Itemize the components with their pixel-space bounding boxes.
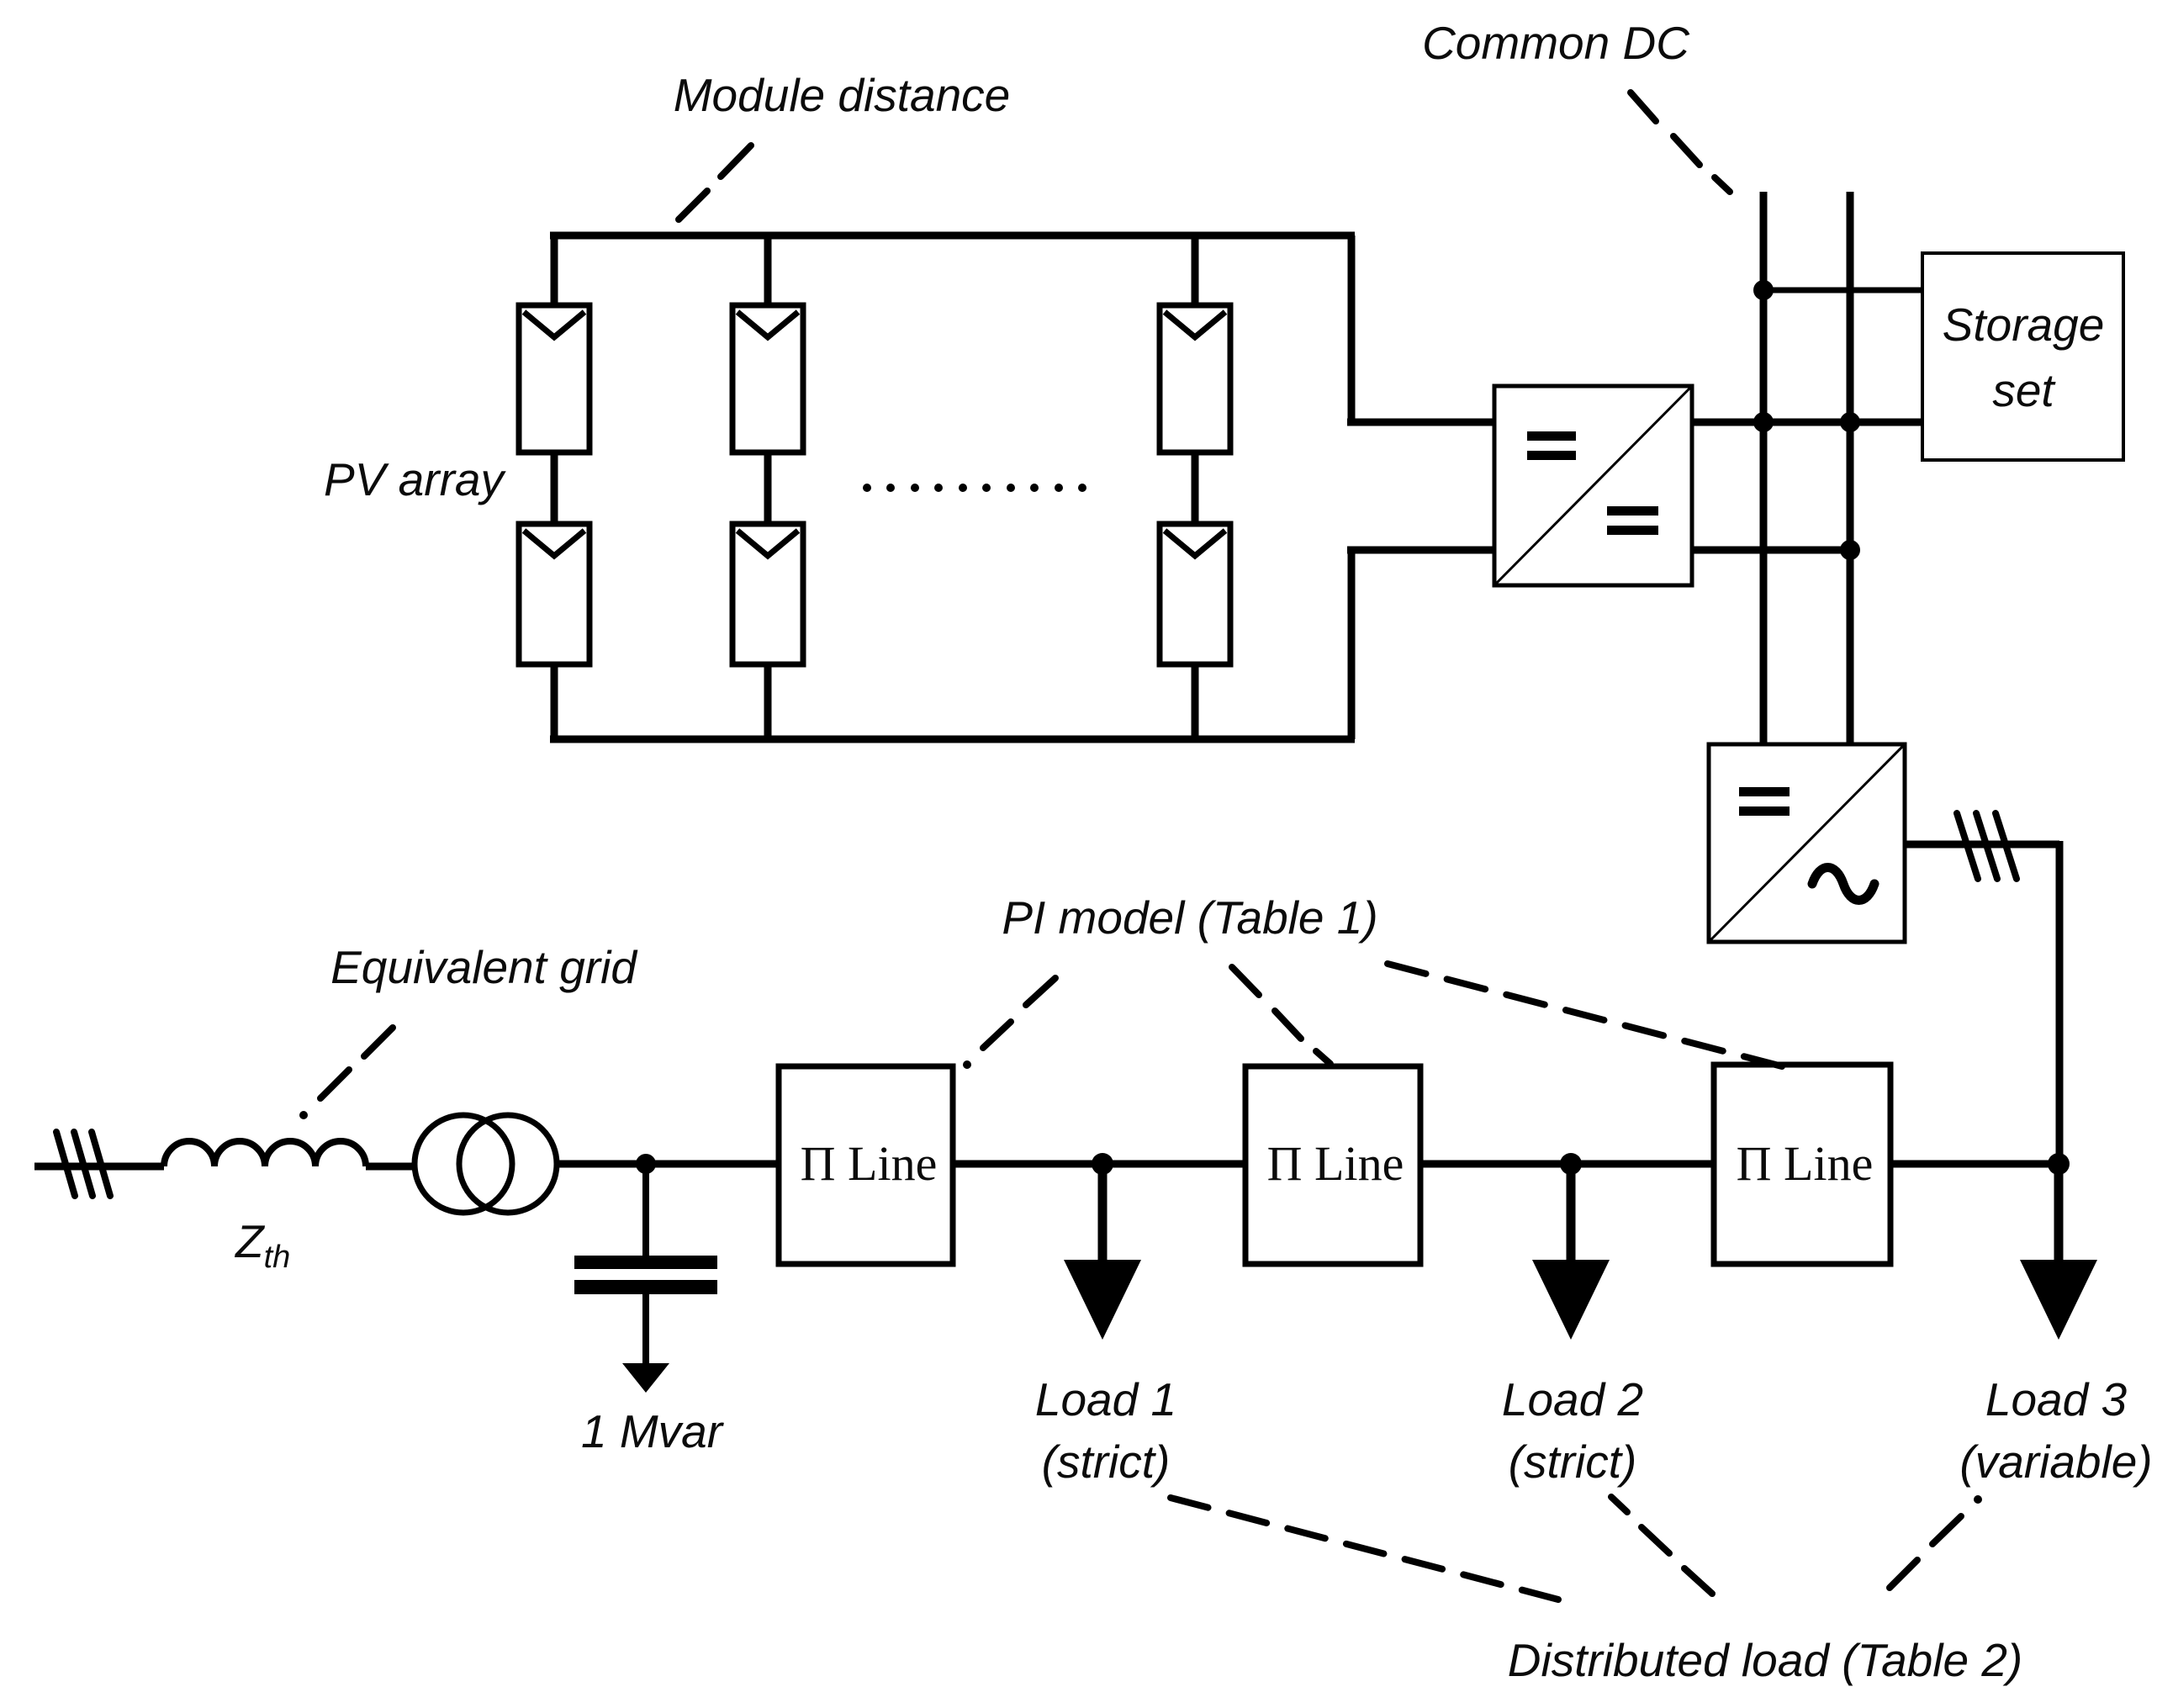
svg-text:Storage: Storage bbox=[1943, 299, 2105, 351]
svg-text:Load 1: Load 1 bbox=[1035, 1373, 1176, 1425]
svg-text:Module distance: Module distance bbox=[674, 69, 1011, 121]
svg-text:PI model (Table 1): PI model (Table 1) bbox=[1002, 891, 1377, 944]
svg-text:Equivalent grid: Equivalent grid bbox=[330, 941, 638, 993]
svg-text:(variable): (variable) bbox=[1959, 1436, 2152, 1488]
svg-text:Load 3: Load 3 bbox=[1985, 1373, 2128, 1425]
svg-text:(strict): (strict) bbox=[1042, 1436, 1171, 1488]
svg-text:(strict): (strict) bbox=[1509, 1436, 1637, 1488]
svg-text:Π Line: Π Line bbox=[1737, 1136, 1874, 1191]
svg-text:PV array: PV array bbox=[324, 453, 506, 505]
svg-text:Load 2: Load 2 bbox=[1502, 1373, 1643, 1425]
svg-text:Π Line: Π Line bbox=[1267, 1136, 1404, 1191]
svg-text:Common DC: Common DC bbox=[1422, 17, 1690, 69]
svg-text:Distributed load (Table 2): Distributed load (Table 2) bbox=[1508, 1634, 2022, 1686]
svg-text:Π Line: Π Line bbox=[801, 1136, 938, 1191]
svg-text:set: set bbox=[1992, 364, 2056, 416]
svg-text:1 Mvar: 1 Mvar bbox=[581, 1405, 725, 1457]
